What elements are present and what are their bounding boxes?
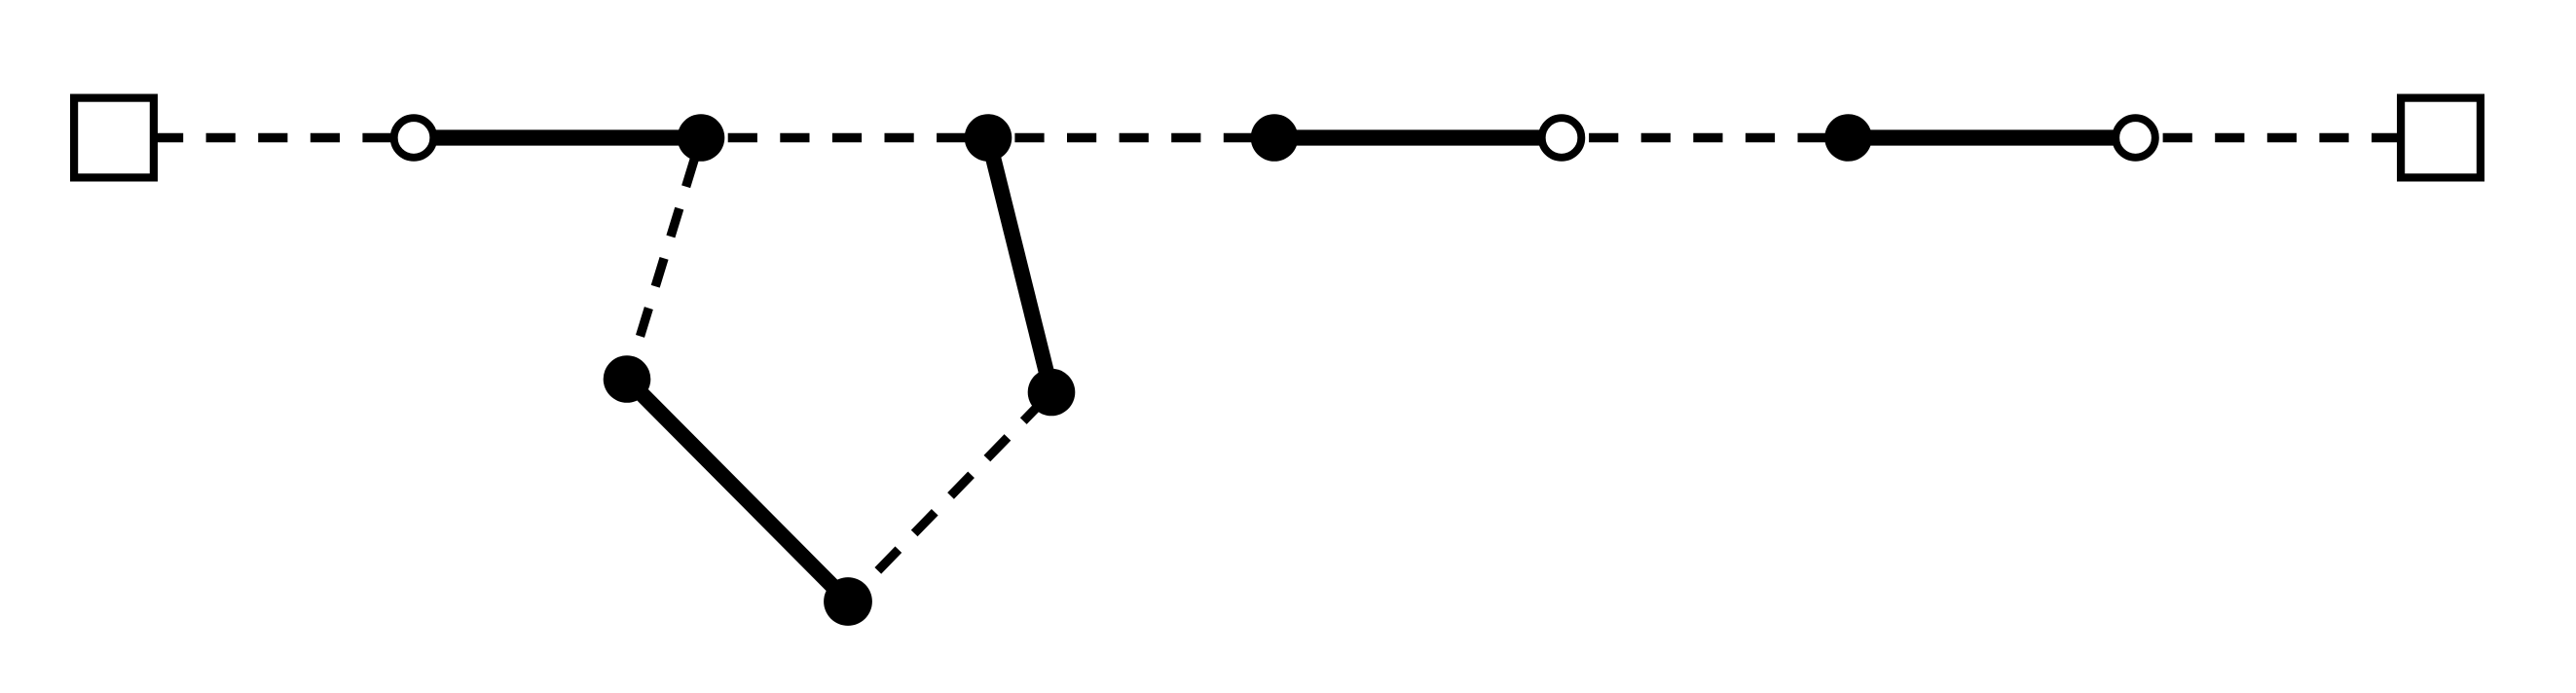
wire: solid edge node V1 to node V2	[414, 129, 701, 145]
wire: dashed edge node V2 to node V3	[701, 133, 988, 142]
node V7: open circle	[2116, 118, 2155, 158]
wire: dashed edge node V3 to node V4	[988, 133, 1274, 142]
node V1: open circle	[394, 118, 434, 158]
node V6: filled circle	[1824, 114, 1872, 162]
wire: dashed edge node V5 to node V6	[1562, 133, 1849, 142]
wire: solid edge node V4 to node V5	[1274, 129, 1562, 145]
wire: dashed edge square S1 to node V1	[114, 133, 414, 142]
node P2: filled circle (pentagon bottom)	[824, 577, 872, 626]
node P3: filled circle (pentagon lower-right)	[1028, 369, 1076, 417]
node V4: filled circle	[1251, 114, 1299, 162]
wire: dashed edge node V7 to square S2	[2136, 133, 2442, 142]
wire: solid edge node P1 to node P2	[627, 380, 848, 602]
wire: dashed edge node V2 to node P1	[627, 138, 701, 380]
node S1: open square terminal (left)	[74, 98, 154, 178]
node V5: open circle	[1542, 118, 1582, 158]
wire: solid edge node P3 to node V3	[988, 138, 1051, 393]
node V3: filled circle	[965, 114, 1012, 162]
node P1: filled circle (pentagon lower-left)	[604, 355, 651, 403]
node S2: open square terminal (right)	[2401, 98, 2481, 178]
node V2: filled circle	[678, 114, 725, 162]
wire: dashed edge node P2 to node P3	[848, 392, 1051, 602]
wire: solid edge node V6 to node V7	[1849, 129, 2136, 145]
